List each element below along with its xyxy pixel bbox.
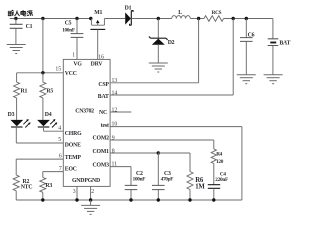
svg-text:VCC: VCC bbox=[65, 71, 77, 77]
pin 1 VG bbox=[72, 53, 82, 68]
svg-text:NTC: NTC bbox=[21, 185, 33, 191]
pin 16 DRV bbox=[91, 54, 104, 67]
pin 3 GND bbox=[72, 178, 84, 200]
ground under D2 bbox=[149, 63, 168, 72]
svg-text:120: 120 bbox=[216, 159, 224, 165]
battery BAT bbox=[268, 19, 291, 75]
svg-text:R5: R5 bbox=[46, 89, 53, 95]
svg-text:100nF: 100nF bbox=[62, 28, 75, 34]
svg-text:1M: 1M bbox=[195, 184, 205, 191]
resistor R1 bbox=[14, 73, 28, 120]
ground under PGND bbox=[90, 200, 92, 205]
svg-text:100nF: 100nF bbox=[133, 176, 146, 182]
svg-text:VG: VG bbox=[73, 62, 82, 68]
LED D4 bbox=[37, 112, 57, 131]
svg-text:220nF: 220nF bbox=[215, 177, 228, 183]
svg-text:COM1: COM1 bbox=[93, 149, 110, 155]
capacitor C1 bbox=[10, 19, 33, 45]
resistor R5 bbox=[40, 73, 53, 120]
svg-text:CHRG: CHRG bbox=[65, 131, 82, 137]
wire: input top rail bbox=[10, 18, 92, 20]
wire: M1 to D1 bbox=[104, 18, 125, 20]
resistor R2 (NTC) bbox=[13, 159, 32, 200]
svg-text:M1: M1 bbox=[94, 10, 102, 16]
svg-text:11: 11 bbox=[112, 162, 118, 168]
pin 5 DONE bbox=[16, 137, 81, 148]
resistor R3 bbox=[40, 172, 53, 200]
svg-text:7: 7 bbox=[59, 166, 62, 172]
svg-text:5: 5 bbox=[58, 137, 61, 143]
inductor L bbox=[172, 10, 191, 19]
node: R3 bottom bbox=[41, 198, 44, 201]
svg-text:NC: NC bbox=[99, 110, 107, 116]
op-amp U1 CN3702 charger IC body bbox=[63, 59, 110, 186]
svg-text:RCS: RCS bbox=[212, 10, 222, 16]
capacitor C5 bbox=[62, 19, 83, 60]
svg-text:D3: D3 bbox=[8, 112, 15, 118]
LED D3 bbox=[8, 112, 31, 143]
wire: VCC drop from rail bbox=[42, 19, 44, 73]
wire: RCS to battery node bbox=[224, 18, 273, 20]
svg-text:R1: R1 bbox=[21, 89, 28, 95]
svg-text:12: 12 bbox=[112, 107, 118, 113]
diode D2 (freewheeling, zener-style bar) bbox=[149, 19, 175, 63]
svg-text:10: 10 bbox=[112, 122, 118, 128]
svg-text:COM3: COM3 bbox=[93, 162, 110, 168]
pin 8 COM1 bbox=[93, 148, 190, 155]
pin 11 COM3 bbox=[93, 162, 131, 169]
svg-text:2: 2 bbox=[91, 189, 94, 195]
pin 9 COM2 bbox=[93, 135, 214, 141]
node: PGND pin bottom bbox=[89, 198, 92, 201]
svg-text:D4: D4 bbox=[45, 112, 52, 118]
svg-text:DRV: DRV bbox=[91, 62, 104, 68]
pin 2 PGND bbox=[84, 178, 100, 200]
pin 10 test bbox=[101, 122, 242, 201]
svg-text:1: 1 bbox=[72, 53, 75, 59]
wire: L to RCS bbox=[190, 18, 204, 20]
svg-text:CN3702: CN3702 bbox=[75, 108, 94, 114]
svg-text:R3: R3 bbox=[45, 183, 52, 189]
svg-text:14: 14 bbox=[112, 91, 118, 97]
svg-text:test: test bbox=[101, 123, 109, 129]
wire: bottom ground/test rail bbox=[16, 199, 242, 201]
node: input/C5 branch junction bbox=[75, 17, 78, 20]
resistor R4 bbox=[211, 140, 223, 185]
svg-text:COM2: COM2 bbox=[93, 136, 110, 142]
node: BAT sense junction bbox=[232, 17, 235, 20]
svg-text:3: 3 bbox=[73, 189, 76, 195]
pin 12 NC stub bbox=[99, 107, 131, 116]
svg-text:D1: D1 bbox=[125, 6, 132, 12]
svg-text:TEMP: TEMP bbox=[65, 155, 82, 161]
capacitor C3 bbox=[152, 153, 173, 202]
svg-text:9: 9 bbox=[112, 135, 115, 141]
pin 4 CHRG bbox=[44, 125, 83, 137]
pin 7 EOC bbox=[43, 166, 77, 173]
capacitor C2 bbox=[125, 167, 146, 202]
capacitor C6 bbox=[240, 19, 255, 75]
svg-text:6: 6 bbox=[59, 153, 62, 159]
svg-text:16: 16 bbox=[98, 54, 104, 60]
ground under battery bbox=[264, 75, 283, 84]
输入电源 input power label bbox=[8, 10, 33, 16]
wire: D1 to L with D2 tap bbox=[131, 18, 171, 20]
node: M1 source junction bbox=[89, 17, 92, 20]
svg-text:C1: C1 bbox=[26, 24, 33, 30]
node: C6 junction bbox=[245, 17, 248, 20]
ground under C6 bbox=[237, 75, 256, 84]
node: input/VCC branch junction bbox=[41, 17, 44, 20]
resistor RCS (current sense) bbox=[204, 10, 224, 21]
svg-text:EOC: EOC bbox=[65, 167, 77, 173]
capacitor C4 bbox=[208, 171, 228, 201]
svg-text:L: L bbox=[178, 10, 182, 16]
diode D1 (Schottky) bbox=[125, 6, 133, 26]
svg-text:C6: C6 bbox=[248, 33, 255, 39]
svg-text:R4: R4 bbox=[216, 151, 222, 157]
svg-text:13: 13 bbox=[112, 78, 118, 84]
svg-text:PGND: PGND bbox=[84, 178, 100, 184]
svg-text:CSP: CSP bbox=[98, 82, 109, 88]
pin 13 CSP bbox=[98, 19, 198, 88]
pin 6 TEMP bbox=[16, 153, 81, 161]
svg-text:8: 8 bbox=[112, 148, 115, 154]
ground under C1 bbox=[7, 45, 26, 54]
node: input/C1 junction bbox=[14, 17, 17, 20]
svg-text:4: 4 bbox=[58, 125, 61, 131]
node: CSP sense junction bbox=[197, 17, 200, 20]
svg-text:BAT: BAT bbox=[279, 41, 290, 47]
resistor R6 bbox=[158, 153, 205, 202]
svg-text:470pF: 470pF bbox=[161, 176, 174, 182]
pin 15 VCC bbox=[17, 67, 77, 77]
transistor M1 (PMOS switch) bbox=[90, 10, 105, 60]
svg-text:BAT: BAT bbox=[98, 94, 109, 100]
svg-text:D2: D2 bbox=[168, 40, 175, 46]
svg-text:C5: C5 bbox=[65, 21, 72, 27]
node: switch node junction bbox=[157, 17, 160, 20]
svg-text:DONE: DONE bbox=[65, 142, 81, 148]
node: GND pin bottom bbox=[75, 198, 78, 201]
pin 14 BAT bbox=[98, 19, 233, 101]
svg-text:GND: GND bbox=[72, 178, 84, 184]
svg-text:15: 15 bbox=[55, 67, 61, 73]
